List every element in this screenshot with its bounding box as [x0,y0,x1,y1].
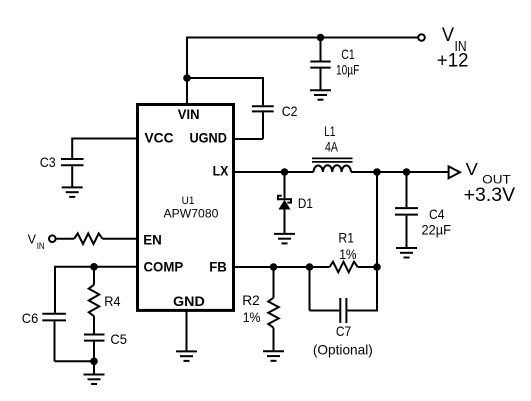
svg-text:U1: U1 [182,195,195,207]
node VIN left label [28,231,45,252]
capacitor C3 [40,154,84,170]
capacitor C2 [252,103,298,119]
svg-text:D1: D1 [298,195,313,211]
node junction COMP/R4 [90,263,98,271]
node junction FB/R2 [270,263,278,271]
node junction LX/C4 [403,168,411,176]
svg-text:1%: 1% [243,309,261,325]
wire R2 lead [273,267,275,298]
capacitor C1 10uF [310,46,359,77]
svg-text:VCC: VCC [145,130,174,146]
wire FB row [235,266,330,268]
resistor R2 1% [242,292,279,328]
svg-text:V: V [466,159,479,179]
svg-text:LX: LX [213,162,229,178]
ground IC GND [176,351,197,361]
svg-text:4A: 4A [325,139,338,155]
node VIN +12 label [437,25,469,71]
svg-text:APW7080: APW7080 [164,207,219,221]
svg-text:COMP: COMP [144,258,184,274]
wire VCC stub [72,138,137,140]
wire C2 to UGND [235,112,263,139]
wire C7 left branch [310,266,340,311]
svg-text:L1: L1 [324,123,336,139]
svg-text:22µF: 22µF [422,222,451,238]
terminal VOUT arrow [449,166,460,178]
terminal EN input (open circle) [49,235,56,242]
wire C1 to ground [320,69,322,90]
wire D1 to ground [284,209,286,233]
ground C5/C6 [84,375,105,385]
node junction FB/C7 [306,263,314,271]
wire EN lead right [103,238,138,240]
svg-text:(Optional): (Optional) [313,341,373,357]
node junction LX/D1 [281,168,289,176]
diode D1 schottky [278,195,313,211]
node junction at VIN branch [183,74,191,82]
ground C1 [310,90,331,100]
node junction FB right [373,263,381,271]
node junction LX/FB feedback [373,168,381,176]
wire VIN vertical to IC [186,37,188,104]
wire D1 lead [284,172,286,198]
svg-text:10µF: 10µF [336,61,359,77]
svg-text:V: V [442,25,455,46]
svg-text:+12: +12 [437,50,469,71]
capacitor C4 22uF [395,206,451,238]
wire C3 to ground [71,166,73,186]
wire LX row right segment [351,171,449,173]
wire R4 lead [93,267,95,285]
wire GND pin down [186,311,188,351]
resistor R1 1% [330,230,358,273]
wire VIN top rail [187,37,418,39]
svg-text:VIN: VIN [178,106,200,122]
svg-text:GND: GND [173,293,205,309]
ground R2 [263,351,284,361]
wire C5 to ground [93,342,95,374]
svg-text:C1: C1 [341,46,355,62]
wire COMP row [55,266,137,268]
svg-text:UGND: UGND [190,130,227,146]
wire C6 bottom loop [55,321,95,361]
svg-text:R1: R1 [338,230,354,246]
svg-text:EN: EN [143,232,162,248]
svg-text:R2: R2 [242,292,260,308]
capacitor C6 [22,310,66,326]
svg-text:R4: R4 [104,293,120,309]
svg-text:C2: C2 [282,103,298,119]
resistor EN series [74,233,102,244]
svg-text:C3: C3 [40,154,56,170]
svg-text:1%: 1% [339,246,356,262]
ground C3 [62,187,83,197]
terminal VIN input (open circle) [418,34,425,41]
wire C7 right branch [347,310,378,312]
ground D1 [274,234,295,244]
svg-text:IN: IN [37,241,45,252]
capacitor C7 (Optional) [313,298,373,357]
svg-text:C4: C4 [429,206,445,222]
svg-text:+3.3V: +3.3V [464,185,516,206]
node junction C6/C5 ground [90,358,98,366]
op-amp U1 APW7080 IC body [138,105,234,311]
svg-text:C5: C5 [110,331,127,347]
wire branch to C2 [186,77,263,105]
wire LX row left segment [235,171,314,173]
capacitor C5 [84,331,127,347]
wire C3 lead [71,138,73,159]
wire R2 to ground [273,328,275,351]
svg-text:C6: C6 [22,310,39,326]
node junction at C1 [317,34,325,42]
wire R4 to C5 [93,316,95,333]
wire C6 branch down [54,266,56,313]
wire C1 lead [320,38,322,61]
wire R1 to right node [358,266,377,268]
inductor L1 4A [312,123,353,172]
wire C4 to ground [406,216,408,248]
resistor R4 [89,285,121,317]
ground C4 [396,248,417,258]
wire C4 lead [406,172,408,207]
svg-text:V: V [28,231,37,246]
wire EN lead left [56,238,75,240]
wire feedback vertical [376,172,378,311]
svg-text:FB: FB [209,259,227,275]
svg-text:C7: C7 [336,323,351,339]
node VOUT +3.3V label [464,159,516,206]
